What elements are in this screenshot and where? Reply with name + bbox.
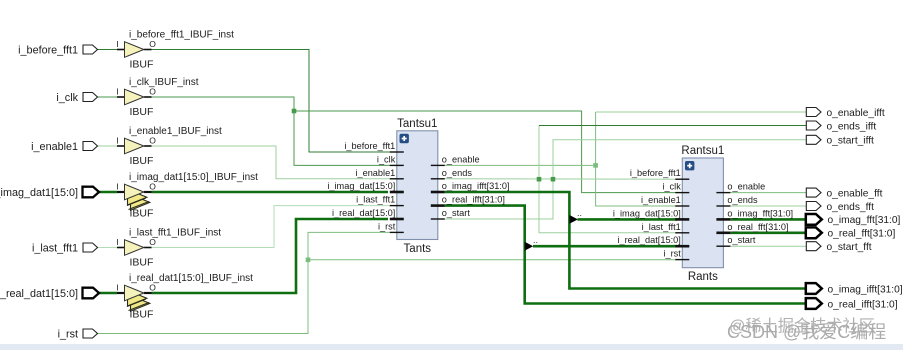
svg-text:O: O: [149, 136, 156, 146]
svg-text:O: O: [149, 283, 156, 293]
svg-text:o_ends_ifft: o_ends_ifft: [827, 121, 877, 132]
svg-text:o_ends_fft: o_ends_fft: [827, 202, 875, 213]
svg-text:o_real_ifft[31:0]: o_real_ifft[31:0]: [442, 195, 505, 205]
svg-text:i_rst: i_rst: [378, 221, 396, 231]
svg-text:O: O: [149, 87, 156, 97]
svg-text:I: I: [116, 182, 118, 192]
svg-text:I: I: [116, 87, 118, 97]
svg-text:i_enable1_IBUF_inst: i_enable1_IBUF_inst: [129, 126, 222, 137]
svg-text:o_ends: o_ends: [442, 168, 473, 178]
svg-text:o_start: o_start: [442, 208, 471, 218]
svg-text:i_imag_dat[15:0]: i_imag_dat[15:0]: [613, 208, 681, 218]
svg-text:i_rst: i_rst: [58, 328, 78, 340]
svg-text:i_before_fft1_IBUF_inst: i_before_fft1_IBUF_inst: [129, 29, 234, 40]
svg-text:i_clk: i_clk: [662, 182, 681, 192]
svg-text:i_enable1: i_enable1: [355, 168, 395, 178]
svg-text:Rants: Rants: [688, 271, 718, 283]
svg-text:o_start_ifft: o_start_ifft: [827, 136, 875, 147]
svg-text:i_enable1: i_enable1: [641, 195, 681, 205]
svg-text:o_start: o_start: [727, 235, 756, 245]
svg-text:I: I: [116, 39, 118, 49]
svg-text:o_enable: o_enable: [727, 182, 765, 192]
svg-text:O: O: [149, 39, 156, 49]
svg-text:IBUF: IBUF: [130, 257, 154, 269]
svg-text:Tants: Tants: [404, 243, 432, 255]
svg-text:o_imag_ifft[31:0]: o_imag_ifft[31:0]: [442, 181, 510, 191]
svg-text:i_last_fft1_IBUF_inst: i_last_fft1_IBUF_inst: [129, 227, 221, 238]
svg-text:i_clk: i_clk: [377, 154, 396, 164]
svg-text:CSDN @我爱C编程: CSDN @我爱C编程: [727, 322, 886, 342]
svg-text:o_real_fft[31:0]: o_real_fft[31:0]: [828, 229, 896, 240]
svg-text:i_real_dat1[15:0]_IBUF_inst: i_real_dat1[15:0]_IBUF_inst: [129, 273, 253, 284]
svg-text:i_imag_dat1[15:0]: i_imag_dat1[15:0]: [0, 187, 78, 199]
svg-text:Tantsu1: Tantsu1: [397, 118, 437, 130]
svg-text:IBUF: IBUF: [130, 309, 154, 321]
svg-text:..: ..: [533, 235, 538, 245]
svg-text:IBUF: IBUF: [130, 155, 154, 167]
svg-text:o_start_fft: o_start_fft: [827, 242, 872, 253]
svg-text:i_imag_dat1[15:0]_IBUF_inst: i_imag_dat1[15:0]_IBUF_inst: [129, 172, 258, 183]
svg-text:o_ends: o_ends: [727, 195, 758, 205]
svg-text:Rantsu1: Rantsu1: [681, 145, 724, 157]
svg-text:i_before_fft1: i_before_fft1: [344, 141, 395, 151]
svg-text:o_imag_fft[31:0]: o_imag_fft[31:0]: [828, 215, 901, 226]
svg-text:i_before_fft1: i_before_fft1: [630, 168, 681, 178]
svg-text:I: I: [116, 136, 118, 146]
svg-text:i_clk_IBUF_inst: i_clk_IBUF_inst: [129, 77, 199, 88]
svg-text:o_real_ifft[31:0]: o_real_ifft[31:0]: [828, 299, 898, 310]
svg-text:I: I: [116, 237, 118, 247]
svg-text:O: O: [149, 237, 156, 247]
svg-text:i_real_dat[15:0]: i_real_dat[15:0]: [332, 208, 395, 218]
svg-text:..: ..: [577, 208, 582, 218]
svg-text:o_imag_ifft[31:0]: o_imag_ifft[31:0]: [828, 284, 903, 295]
svg-text:i_real_dat1[15:0]: i_real_dat1[15:0]: [0, 288, 78, 300]
svg-text:i_last_fft1: i_last_fft1: [642, 222, 681, 232]
svg-text:o_real_fft[31:0]: o_real_fft[31:0]: [727, 222, 788, 232]
svg-text:i_clk: i_clk: [56, 92, 78, 104]
svg-text:IBUF: IBUF: [130, 208, 154, 220]
svg-text:o_enable: o_enable: [442, 154, 480, 164]
svg-text:O: O: [149, 182, 156, 192]
svg-text:IBUF: IBUF: [130, 59, 154, 71]
svg-text:o_enable_fft: o_enable_fft: [827, 188, 883, 199]
svg-text:o_imag_fft[31:0]: o_imag_fft[31:0]: [727, 208, 793, 218]
svg-text:i_enable1: i_enable1: [31, 141, 78, 153]
svg-text:IBUF: IBUF: [130, 106, 154, 118]
svg-text:i_imag_dat[15:0]: i_imag_dat[15:0]: [327, 181, 395, 191]
svg-text:i_last_fft1: i_last_fft1: [32, 242, 78, 254]
svg-text:o_enable_ifft: o_enable_ifft: [827, 108, 885, 119]
svg-text:i_before_fft1: i_before_fft1: [18, 44, 78, 56]
svg-text:i_last_fft1: i_last_fft1: [356, 195, 395, 205]
svg-text:i_rst: i_rst: [663, 249, 681, 259]
svg-text:I: I: [116, 283, 118, 293]
svg-text:i_real_dat[15:0]: i_real_dat[15:0]: [617, 235, 680, 245]
